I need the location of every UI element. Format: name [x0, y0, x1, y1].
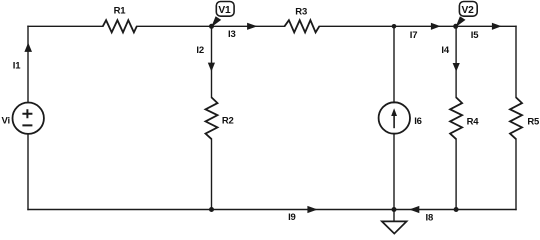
- wire bottom: [28, 209, 516, 211]
- arrow I8: [409, 206, 433, 223]
- svg-text:I1: I1: [13, 61, 21, 72]
- wire left lower: [27, 134, 29, 210]
- wire top from left corner to R1: [28, 25, 103, 27]
- svg-text:V1: V1: [218, 5, 231, 16]
- current source I6: [379, 102, 422, 133]
- wire right lower: [515, 139, 517, 209]
- junction bottom R4: [454, 207, 459, 212]
- arrow I5: [471, 23, 502, 42]
- wire top from R1 to R3 through node V1: [137, 25, 285, 27]
- wire R2 branch upper: [211, 26, 213, 97]
- arrow I4: [441, 45, 459, 72]
- svg-text:I8: I8: [426, 212, 434, 223]
- arrow I7: [410, 23, 441, 41]
- resistor R2: [206, 97, 234, 139]
- arrow I9: [288, 206, 318, 223]
- wire R4 branch lower: [455, 139, 457, 209]
- svg-text:V2: V2: [462, 5, 475, 16]
- wire right upper: [515, 26, 517, 97]
- svg-text:I5: I5: [471, 30, 479, 41]
- svg-text:R2: R2: [222, 115, 234, 126]
- arrow I1: [13, 43, 32, 72]
- junction bottom ground: [392, 207, 397, 212]
- wire I6 branch lower: [393, 134, 395, 210]
- wire top from R3 to top-right corner: [319, 25, 516, 27]
- node V2: [453, 2, 477, 29]
- svg-text:I6: I6: [414, 116, 422, 127]
- junction bottom R2: [209, 207, 214, 212]
- wire left upper: [27, 26, 29, 102]
- arrow I2: [196, 45, 215, 72]
- resistor R5: [510, 97, 540, 139]
- junction after R3: [392, 24, 397, 29]
- svg-text:I7: I7: [410, 30, 418, 41]
- svg-text:R1: R1: [114, 6, 127, 17]
- ground: [382, 210, 407, 234]
- wire R4 branch upper: [455, 26, 457, 97]
- resistor R4: [450, 97, 479, 139]
- svg-text:R4: R4: [467, 117, 480, 128]
- svg-text:R3: R3: [295, 7, 307, 18]
- voltage source Vi: [2, 103, 44, 134]
- svg-text:I3: I3: [228, 29, 236, 40]
- arrow I3: [228, 23, 257, 40]
- resistor R1: [103, 6, 137, 33]
- svg-text:I9: I9: [288, 212, 296, 223]
- node V1: [209, 2, 234, 29]
- wire R2 branch lower: [211, 139, 213, 209]
- svg-text:I2: I2: [196, 45, 204, 56]
- svg-text:Vi: Vi: [2, 116, 10, 127]
- resistor R3: [285, 7, 320, 33]
- svg-text:R5: R5: [527, 117, 540, 128]
- wire I6 branch upper: [393, 26, 395, 102]
- svg-text:I4: I4: [441, 45, 449, 56]
